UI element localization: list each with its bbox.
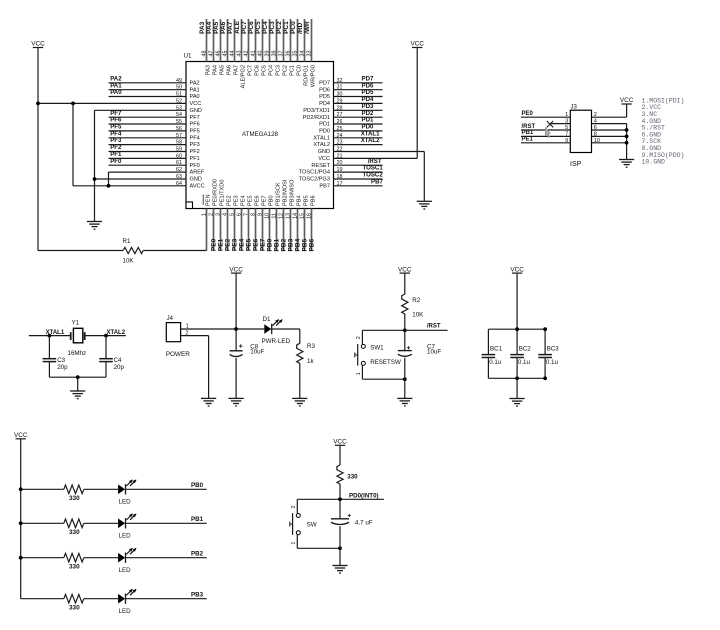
svg-text:R3: R3 [307, 343, 315, 350]
wire LED row PB1 [21, 522, 64, 524]
wire top pin 36 net PC1 [290, 19, 292, 62]
svg-text:XTAL2: XTAL2 [361, 137, 380, 144]
wire net PA0 [109, 96, 187, 98]
svg-text:VCC: VCC [318, 156, 330, 162]
svg-text:PD3/TXD1: PD3/TXD1 [303, 108, 330, 114]
ground button circuit [332, 565, 347, 567]
capacitor BC1 0.1u [487, 329, 489, 354]
wire bottom pin 11 net PB1 [276, 209, 278, 251]
wire bottom pin 6 net PE4 [241, 209, 243, 251]
svg-text:1: 1 [291, 542, 297, 545]
wire J3 pin 3 no-connect [550, 123, 570, 125]
svg-text:PC4: PC4 [262, 21, 269, 34]
svg-text:PB1: PB1 [522, 130, 534, 136]
LED row PB3 [118, 594, 125, 604]
node junction C7 bottom [403, 377, 407, 381]
svg-text:10K: 10K [123, 257, 135, 264]
wire bottom pin 10 net PB0 [269, 209, 271, 251]
node junction XTAL2 [104, 334, 108, 338]
svg-text:PB1: PB1 [274, 238, 281, 251]
svg-text:PE0/RXD0: PE0/RXD0 [213, 179, 219, 206]
wire bottom pin 4 net PE2 [227, 209, 229, 251]
svg-text:PC5: PC5 [255, 21, 262, 34]
wire LED to net PB2 [126, 557, 207, 559]
wire top pin 37 net PC2 [283, 19, 285, 62]
wire PD0 node [297, 498, 384, 500]
wire GND pin63 [95, 178, 187, 180]
capacitor C7 10uF [404, 330, 406, 350]
svg-text:PC0: PC0 [290, 21, 297, 34]
svg-text:LED: LED [119, 567, 132, 574]
svg-text:2: 2 [594, 112, 597, 118]
wire net PF0 [109, 164, 187, 166]
svg-text:PC6: PC6 [254, 65, 260, 76]
svg-text:PE0: PE0 [211, 238, 218, 251]
svg-text:SW1: SW1 [370, 344, 384, 351]
resistor 330 row PB3 [64, 594, 84, 603]
wire J3 pin 2 [592, 116, 627, 118]
node junction J3 pin 6 [625, 128, 629, 132]
svg-text:PE4: PE4 [239, 238, 246, 251]
wire GND pin53 [95, 109, 187, 111]
wire net PF1 [109, 157, 187, 159]
svg-text:PC7: PC7 [247, 65, 253, 76]
wire bottom pin 5 net PE3 [234, 209, 236, 251]
svg-text:330: 330 [69, 529, 80, 536]
wire J3 gnd bus [626, 124, 628, 160]
wire net PF2 [109, 151, 187, 153]
svg-text:330: 330 [69, 495, 80, 502]
svg-text:PWR-LED: PWR-LED [262, 338, 291, 345]
svg-text:0.1u: 0.1u [518, 359, 531, 366]
wire net TOSC1 [334, 171, 383, 173]
wire top pin 33 net /WR [311, 19, 313, 62]
svg-text:PD7: PD7 [319, 80, 330, 86]
svg-text:/RST: /RST [522, 124, 536, 130]
svg-text:VCC: VCC [14, 432, 28, 439]
svg-text:ALE: ALE [234, 20, 241, 34]
wire LED row PB0 [21, 488, 64, 490]
node junction R2//RST [403, 328, 407, 332]
svg-text:16Mhz: 16Mhz [68, 350, 87, 357]
node junction GND63 [93, 177, 97, 181]
ground crystal [70, 390, 85, 392]
node junction J3 pin 10 [625, 141, 629, 145]
LED row PB0 [118, 485, 125, 495]
svg-text:2: 2 [185, 330, 188, 336]
wire AVCC branch [72, 103, 74, 185]
svg-text:GND: GND [318, 149, 330, 155]
svg-text:ISP: ISP [570, 161, 582, 168]
wire net PD0 [334, 130, 383, 132]
svg-text:PC2: PC2 [282, 65, 288, 76]
wire BC top rail [488, 328, 545, 330]
wire net XTAL2 [334, 144, 383, 146]
svg-text:GND: GND [190, 177, 202, 183]
wire net PD6 [334, 89, 383, 91]
svg-text:VCC: VCC [333, 439, 347, 446]
node junction AREF/AVCC [107, 184, 111, 188]
svg-text:PB2: PB2 [191, 551, 204, 558]
ground left under chip [87, 221, 102, 223]
svg-text:PA5: PA5 [219, 65, 225, 75]
capacitor 4.7 uF [339, 499, 341, 519]
svg-text:GND: GND [190, 108, 202, 114]
svg-text:WR/PG0: WR/PG0 [310, 65, 316, 87]
svg-text:LED: LED [119, 533, 132, 540]
connector J3 ISP header body [570, 110, 591, 152]
svg-text:ALE/PG2: ALE/PG2 [240, 65, 246, 88]
svg-text:BC1: BC1 [490, 345, 503, 352]
svg-text:PB4: PB4 [295, 238, 302, 251]
svg-text:PE7: PE7 [262, 195, 268, 206]
wire top pin 42 net PC7 [248, 19, 250, 62]
svg-text:PE3: PE3 [232, 238, 239, 251]
wire XTAL1 stub [29, 335, 71, 337]
svg-text:PF2: PF2 [190, 149, 200, 155]
svg-text:7: 7 [565, 131, 568, 137]
svg-text:PF0: PF0 [110, 158, 122, 165]
svg-text:RESETSW: RESETSW [370, 359, 401, 366]
svg-text:2: 2 [291, 506, 297, 509]
svg-text:PF6: PF6 [190, 122, 200, 128]
no-connect X on J3 pin 3 [547, 121, 553, 127]
resistor R3 1k [297, 343, 303, 363]
wire bottom pin 9 net PE7 [262, 209, 264, 251]
svg-text:1k: 1k [307, 358, 314, 365]
wire J3 pin 7 net PB1 [521, 135, 570, 137]
svg-text:PA1: PA1 [190, 87, 200, 93]
wire net PD4 [334, 102, 383, 104]
wire AREF to AVCC [109, 171, 187, 173]
wire net PA2 [109, 82, 187, 84]
svg-text:PC4: PC4 [268, 65, 274, 76]
svg-text:PC2: PC2 [276, 21, 283, 34]
svg-text:PA0: PA0 [110, 89, 122, 96]
wire top pin 45 net PA6 [227, 19, 229, 62]
wire top pin 46 net PA5 [220, 19, 222, 62]
svg-text:PC3: PC3 [275, 65, 281, 76]
node junctions BC rails [515, 327, 519, 331]
svg-text:VCC: VCC [510, 266, 524, 273]
svg-text:5: 5 [565, 125, 568, 131]
svg-text:10uF: 10uF [427, 349, 441, 356]
node junction cap bottom [338, 546, 342, 550]
wire top pin 39 net PC4 [269, 19, 271, 62]
svg-text:PB0: PB0 [267, 238, 274, 251]
svg-text:PB3/MISO: PB3/MISO [290, 179, 296, 206]
capacitor BC2 0.1u [516, 329, 518, 354]
wire J4 pin1 to VCC rail [181, 328, 237, 330]
svg-text:PD1: PD1 [319, 122, 330, 128]
svg-text:PC1: PC1 [289, 65, 295, 76]
svg-text:PF3: PF3 [190, 142, 200, 148]
svg-text:PE1: PE1 [522, 137, 534, 143]
wire net PD1 [334, 123, 383, 125]
svg-text:VCC: VCC [398, 266, 412, 273]
wire GND vertical to ground [94, 110, 96, 221]
wire net PD5 [334, 96, 383, 98]
svg-text:PA7: PA7 [233, 65, 239, 75]
ground at ISP [619, 159, 634, 161]
wire J3 pin 6 [592, 129, 627, 131]
svg-text:4: 4 [594, 119, 597, 125]
svg-text:LED: LED [119, 608, 132, 615]
svg-text:PA7: PA7 [227, 21, 234, 34]
wire LED row PB3 [21, 598, 64, 600]
svg-text:20p: 20p [57, 364, 68, 371]
svg-text:PA3: PA3 [199, 21, 206, 34]
svg-text:330: 330 [69, 605, 80, 612]
svg-text:PD6: PD6 [319, 87, 330, 93]
switch SW [296, 499, 298, 513]
svg-text:PB7: PB7 [319, 183, 330, 189]
wire XTAL2 stub [85, 335, 126, 337]
svg-text:XTAL2: XTAL2 [107, 330, 126, 336]
wire net PF3 [109, 144, 187, 146]
svg-text:PB2/MOSI: PB2/MOSI [283, 179, 289, 206]
svg-text:PC7: PC7 [241, 21, 248, 34]
svg-text:VCC: VCC [410, 41, 424, 48]
node junction crystal gnd [76, 375, 80, 379]
wire top pin 44 net PA7 [234, 19, 236, 62]
svg-text:R1: R1 [123, 238, 131, 245]
svg-text:PE1/TXD0: PE1/TXD0 [220, 180, 226, 206]
resistor 330 row PB1 [64, 519, 84, 528]
svg-text:PD0: PD0 [319, 129, 330, 135]
wire J3 pin 8 [592, 135, 627, 137]
node junction J3 pin 8 [625, 135, 629, 139]
wire J3 pin 9 net PE1 [521, 142, 570, 144]
svg-text:U1: U1 [184, 53, 192, 60]
svg-text:J3: J3 [571, 105, 578, 111]
wire top pin 35 net PC0 [297, 19, 299, 62]
svg-text:RD/PG1: RD/PG1 [303, 65, 309, 86]
wire J3 pin 1 net PE0 [521, 116, 570, 118]
ground J4 [201, 397, 216, 399]
wire to ground BC [516, 378, 518, 398]
wire bottom pin 12 net PB2 [283, 209, 285, 251]
svg-text:VCC: VCC [620, 97, 634, 104]
svg-text:PB3: PB3 [288, 238, 295, 251]
svg-text:XTAL1: XTAL1 [313, 135, 330, 141]
svg-text:10uF: 10uF [250, 349, 264, 356]
svg-text:PD5: PD5 [319, 94, 330, 100]
svg-text:C3: C3 [57, 357, 65, 364]
capacitor C4 20p [105, 336, 107, 359]
svg-text:BC2: BC2 [519, 345, 532, 352]
svg-text:/RD: /RD [297, 22, 304, 34]
svg-text:2: 2 [356, 336, 362, 339]
wire bottom pin 14 net PB4 [297, 209, 299, 251]
svg-text:/RST: /RST [427, 324, 441, 330]
connector J4 POWER [166, 323, 180, 342]
wire bottom pin 7 net PE5 [248, 209, 250, 251]
svg-text:PB6: PB6 [309, 238, 316, 251]
svg-text:PB5: PB5 [302, 238, 309, 251]
svg-text:PC3: PC3 [269, 21, 276, 34]
ground reset circuit [397, 397, 412, 399]
wire bottom pin 2 net PE0 [213, 209, 215, 251]
capacitor C3 20p [48, 336, 50, 359]
svg-text:PB3: PB3 [191, 592, 204, 599]
svg-text:8: 8 [594, 131, 597, 137]
wire net TOSC2 [334, 178, 383, 180]
node junction PD0 [338, 497, 342, 501]
svg-text:PD2/RXD1: PD2/RXD1 [303, 115, 330, 121]
wire top pin 48 net PA3 [206, 19, 208, 62]
svg-text:10K: 10K [412, 311, 424, 318]
resistor R2 10K [402, 294, 408, 314]
wire top pin 40 net PC5 [262, 19, 264, 62]
svg-text:PE2: PE2 [225, 238, 232, 251]
svg-text:ATMEGA128: ATMEGA128 [242, 131, 279, 138]
svg-text:330: 330 [347, 473, 358, 480]
wire bottom pin 13 net PB3 [290, 209, 292, 251]
wire /RST node [362, 329, 447, 331]
wire top pin 47 net PA4 [213, 19, 215, 62]
wire net PF6 [109, 123, 187, 125]
svg-text:PC0: PC0 [296, 65, 302, 76]
svg-text:3: 3 [565, 119, 568, 125]
svg-text:PF4: PF4 [190, 135, 200, 141]
wire top pin 34 net /RD [304, 19, 306, 62]
svg-text:PE2: PE2 [227, 195, 233, 206]
wire bottom pin 8 net PE6 [255, 209, 257, 251]
svg-text:PE7: PE7 [260, 238, 267, 251]
svg-text:PE6: PE6 [253, 238, 260, 251]
svg-text:PE3: PE3 [234, 195, 240, 206]
node junction VCC x73 [71, 102, 75, 106]
svg-text:6: 6 [594, 125, 597, 131]
svg-text:RESET: RESET [311, 163, 330, 169]
svg-text:10: 10 [594, 138, 600, 144]
resistor 330 row PB2 [64, 553, 84, 562]
wire top pin 41 net PC6 [255, 19, 257, 62]
wire net PD7 [334, 82, 383, 84]
svg-text:BC3: BC3 [547, 345, 560, 352]
svg-text:PC6: PC6 [248, 21, 255, 34]
node junction VCC/J4/LED [234, 327, 238, 331]
svg-text:PB4: PB4 [297, 195, 303, 206]
wire net PF5 [109, 130, 187, 132]
svg-text:PA2: PA2 [190, 80, 200, 86]
IC U1 ATMEGA128 microcontroller body [186, 62, 334, 209]
wire net PF7 [109, 116, 187, 118]
svg-text:0.1u: 0.1u [546, 359, 559, 366]
wire top pin 43 net ALE [241, 19, 243, 62]
resistor R1 10K [38, 250, 123, 252]
wire VCC to pin 21 [416, 48, 418, 159]
wire to ground [77, 377, 79, 391]
svg-text:10.GND: 10.GND [642, 159, 666, 166]
svg-text:PE5: PE5 [248, 195, 254, 206]
wire bottom pin 16 net PB6 [311, 209, 313, 251]
svg-text:PA6: PA6 [220, 21, 227, 34]
wire LED row PB2 [21, 557, 64, 559]
svg-text:PC1: PC1 [283, 21, 290, 34]
wire GND pin22 to ground [334, 151, 425, 153]
wire VCC to J3 pin2 [626, 104, 628, 117]
svg-text:C4: C4 [114, 357, 122, 364]
svg-text:1: 1 [356, 372, 362, 375]
svg-text:PE0: PE0 [522, 111, 534, 117]
wire J3 pin 5 net /RST [521, 129, 570, 131]
svg-text:XTAL2: XTAL2 [313, 142, 330, 148]
PEN overline [202, 195, 204, 206]
svg-text:PF1: PF1 [190, 156, 200, 162]
ground R3 [292, 397, 307, 399]
wire SW bottom [297, 547, 340, 549]
switch SW1 RESETSW [361, 330, 363, 344]
svg-text:1: 1 [186, 324, 189, 330]
crystal Y1 16Mhz [70, 332, 72, 340]
svg-text:SW: SW [307, 521, 317, 528]
wire SW1 bottom [362, 378, 404, 380]
svg-text:PEN: PEN [206, 194, 212, 206]
svg-text:PA0: PA0 [190, 94, 200, 100]
svg-text:/WR: /WR [304, 21, 311, 34]
ground C8 [229, 397, 244, 399]
svg-text:PF7: PF7 [190, 115, 200, 121]
resistor 330 row PB0 [64, 485, 84, 494]
wire net /RST [334, 164, 383, 166]
LED row PB1 [118, 519, 125, 529]
wire net XTAL1 [334, 137, 383, 139]
wire net PB7 [334, 185, 383, 187]
svg-text:PB5: PB5 [304, 195, 310, 206]
wire net PA1 [109, 89, 187, 91]
wire crystal bottom rail [49, 376, 106, 378]
svg-text:9: 9 [565, 138, 568, 144]
svg-text:VCC: VCC [229, 266, 243, 273]
svg-text:PD0(INT0): PD0(INT0) [349, 492, 379, 499]
svg-text:PF5: PF5 [190, 129, 200, 135]
svg-text:PB0: PB0 [269, 195, 275, 206]
svg-text:PB1/SCK: PB1/SCK [276, 182, 282, 206]
wire net PF4 [109, 137, 187, 139]
wire LED to net PB1 [126, 522, 207, 524]
wire LED to net PB3 [126, 598, 207, 600]
wire BC bottom rail [488, 377, 545, 379]
svg-text:AVCC: AVCC [190, 183, 205, 189]
svg-text:PB6: PB6 [311, 195, 317, 206]
svg-text:PF0: PF0 [190, 163, 200, 169]
node junction VCC x38 [36, 102, 40, 106]
wire top pin 38 net PC3 [276, 19, 278, 62]
wire J4 pin2 to ground [181, 335, 209, 337]
svg-text:PA6: PA6 [226, 65, 232, 75]
svg-text:AREF: AREF [190, 170, 206, 176]
svg-text:PA5: PA5 [213, 21, 220, 34]
capacitor BC3 0.1u [544, 329, 546, 354]
svg-text:1: 1 [565, 112, 568, 118]
wire net PD2 [334, 116, 383, 118]
capacitor C8 10uF [239, 345, 242, 347]
svg-text:Y1: Y1 [72, 320, 80, 327]
mouse cursor [545, 127, 550, 137]
ground right of chip [417, 200, 432, 202]
svg-text:PB2: PB2 [281, 238, 288, 251]
resistor 330 vertical [337, 465, 343, 484]
node junction XTAL1 [48, 334, 52, 338]
svg-text:LED: LED [119, 499, 132, 506]
wire LED to R3 [272, 328, 300, 330]
svg-text:VCC: VCC [31, 41, 45, 48]
wire VCC vertical to R1 [37, 48, 39, 251]
wire J3 pin 4 [592, 123, 627, 125]
svg-text:D1: D1 [263, 316, 271, 323]
